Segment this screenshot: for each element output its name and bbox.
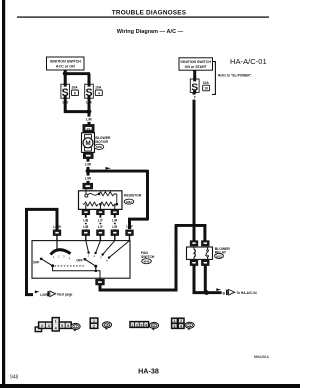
- fan switch right wiper: [85, 259, 96, 266]
- blower relay connector top 1: [190, 241, 197, 246]
- blower relay connector oval M33: [215, 254, 224, 259]
- scan bottom black edge: [0, 384, 300, 388]
- wire fuse 2 down: [88, 99, 91, 113]
- svg-text:Wiring Diagram — A/C —: Wiring Diagram — A/C —: [117, 29, 184, 35]
- svg-text:3: 3: [141, 323, 143, 327]
- fan switch left wiper: [41, 259, 52, 266]
- svg-text:OFF: OFF: [33, 260, 39, 264]
- legend oval M58: [102, 322, 111, 330]
- blower relay box: [187, 247, 213, 259]
- ignition switch box ACC or ON: [47, 57, 85, 70]
- svg-text:MHA281A: MHA281A: [254, 355, 270, 359]
- svg-text:ON or START: ON or START: [185, 65, 208, 69]
- svg-text:L/Y: L/Y: [98, 225, 104, 229]
- fan switch left rotary arc: [51, 250, 71, 255]
- fuse 3 10A: [190, 78, 199, 94]
- svg-text:4: 4: [180, 324, 182, 328]
- legend connector face 3: [130, 322, 149, 328]
- ignition switch box ON or START: [179, 58, 213, 70]
- svg-text:L/R: L/R: [112, 218, 118, 222]
- wire to off-page arrow: [207, 291, 222, 294]
- svg-text:OFF: OFF: [76, 258, 82, 262]
- off-page arrow next page: [47, 291, 55, 297]
- svg-text:L/GR: L/GR: [53, 225, 61, 229]
- svg-text:10A: 10A: [71, 86, 78, 90]
- svg-text:L/Y: L/Y: [98, 218, 104, 222]
- header rule: [17, 16, 269, 17]
- wire from ignition ACC box down: [64, 70, 67, 75]
- legend connector face 4: [172, 318, 184, 328]
- blower relay connector bottom 2: [202, 260, 209, 265]
- wire L/W left to fan switch connector: [130, 219, 149, 229]
- svg-text:M33: M33: [216, 254, 222, 258]
- svg-text:3: 3: [174, 324, 176, 328]
- resistor box: [79, 189, 123, 210]
- svg-text:IGNITION SWITCH: IGNITION SWITCH: [50, 60, 82, 64]
- svg-text:3: 3: [48, 324, 50, 328]
- mechanical link dashed line: [54, 265, 84, 267]
- fan switch right contact 4: [108, 256, 110, 258]
- svg-text:M49: M49: [144, 260, 150, 264]
- fan switch connector 3: [97, 230, 104, 235]
- direction arrow on L/W wire: [106, 167, 112, 170]
- wire down to fuse 1: [64, 74, 67, 85]
- resistor pin connector 1: [82, 210, 89, 215]
- legend oval M15: [71, 323, 80, 331]
- resistor pin connector 3: [111, 210, 118, 215]
- svg-text:948: 948: [10, 375, 19, 381]
- svg-text:10: 10: [204, 87, 208, 91]
- direction arrow on vertical wire: [174, 251, 177, 255]
- fan switch common bus wires: [53, 266, 100, 280]
- wire fuse 1 down and right: [65, 99, 89, 112]
- blower relay connector bottom 1: [190, 260, 197, 265]
- wire resistor pin 3 to fan switch: [114, 215, 116, 230]
- svg-text:2: 2: [93, 324, 95, 328]
- svg-text:6: 6: [67, 324, 69, 328]
- wire fan switch bottom to relay contact column: [100, 225, 176, 290]
- legend oval M33: [185, 322, 194, 330]
- node junction bottom right: [204, 290, 209, 295]
- svg-text:HA-A/C-01: HA-A/C-01: [230, 57, 267, 66]
- node junction below blower motor: [86, 169, 91, 174]
- wire Y down to relay: [193, 100, 196, 241]
- bar over relay: [175, 224, 207, 227]
- direction arrow near L/GR: [35, 290, 40, 293]
- svg-text:M62: M62: [126, 200, 132, 204]
- svg-text:RESISTOR: RESISTOR: [124, 194, 142, 198]
- svg-text:M: M: [85, 140, 90, 147]
- refer bracket: [212, 62, 215, 95]
- fuse 2 10A: [85, 83, 94, 99]
- svg-text:10A: 10A: [203, 81, 210, 85]
- fan switch contact lines from connectors: [86, 241, 89, 253]
- wire resistor pin 1 to fan switch: [85, 215, 87, 230]
- svg-text:L/W: L/W: [85, 177, 92, 181]
- node junction under ACC box: [63, 71, 68, 76]
- wire L/W horizontal to right: [88, 170, 148, 173]
- svg-text:1: 1: [55, 320, 57, 324]
- svg-text:6: 6: [74, 91, 76, 95]
- legend oval M62: [149, 322, 158, 330]
- connector below blower motor: [84, 153, 94, 159]
- wire L/GR loop from fan switch pin 1: [27, 209, 58, 294]
- fan switch connector 2: [82, 230, 89, 235]
- resistor pin connector 2: [97, 210, 104, 215]
- wire relay coil pin down: [194, 265, 207, 292]
- svg-text:M58: M58: [96, 145, 102, 149]
- fan switch right contact 2: [94, 252, 96, 254]
- fan switch left OFF contact: [40, 258, 43, 261]
- svg-text:TROUBLE DIAGNOSES: TROUBLE DIAGNOSES: [112, 10, 187, 17]
- blower motor connector oval M58: [94, 144, 104, 149]
- svg-text:S: S: [62, 87, 69, 99]
- wire blower motor to junction: [87, 158, 90, 170]
- fan switch bottom connector: [96, 279, 104, 284]
- wire down to connector: [88, 112, 91, 125]
- svg-text:Refer to “EL-POWER”.: Refer to “EL-POWER”.: [218, 73, 252, 77]
- fan switch right wiper pivot: [94, 265, 97, 268]
- svg-text:5: 5: [61, 324, 63, 328]
- fan switch connector 5: [126, 230, 133, 235]
- fan switch left rotary feed wire: [56, 241, 58, 252]
- wire branch to right fuse: [64, 72, 90, 75]
- svg-text:2: 2: [41, 324, 43, 328]
- wire junction to resistor: [87, 171, 90, 183]
- fan switch connector 4: [111, 230, 118, 235]
- svg-text:15: 15: [87, 127, 91, 131]
- legend connector face 1: [35, 318, 71, 332]
- fan switch connector oval M49: [142, 259, 152, 264]
- connector above resistor: [83, 183, 93, 188]
- svg-text:1: 1: [174, 319, 176, 323]
- direction arrow on bottom wire: [216, 288, 221, 291]
- svg-text:L/R: L/R: [112, 225, 118, 229]
- fan switch connector 1: [53, 230, 60, 235]
- svg-text:L/W: L/W: [85, 162, 92, 166]
- svg-text:4: 4: [145, 323, 147, 327]
- fuse 1 10A: [61, 83, 70, 99]
- fan switch left wiper pivot: [51, 264, 54, 267]
- node junction of fuse outputs: [87, 109, 92, 114]
- blower relay connector top 2: [202, 241, 209, 246]
- wire ignition ON box to fuse 3: [193, 70, 196, 79]
- fan switch right contact 1: [87, 251, 89, 253]
- svg-text:1: 1: [131, 323, 133, 327]
- fan switch right contact 3: [101, 253, 103, 255]
- svg-text:Next page: Next page: [57, 293, 72, 297]
- fan switch right OFF contact: [84, 258, 87, 261]
- fuse 1 number box: [72, 90, 79, 96]
- drop to relay contact pin: [203, 224, 206, 241]
- svg-text:L/W: L/W: [126, 224, 133, 228]
- stub wires connectors to fan switch box: [57, 235, 130, 240]
- wire down to fuse 2: [88, 74, 91, 85]
- connector M15 above blower motor: [83, 125, 94, 133]
- svg-text:S: S: [191, 83, 198, 94]
- off-page arrow to HA-A/C-04: [226, 289, 235, 295]
- wire relay contact pin down: [204, 265, 207, 292]
- svg-text:ACC or ON: ACC or ON: [56, 65, 75, 69]
- fan switch box: [32, 241, 130, 279]
- svg-text:HA-38: HA-38: [138, 367, 159, 376]
- svg-text:L/GR: L/GR: [40, 293, 48, 297]
- fuse 3 number box: [203, 85, 210, 91]
- wire Y stub below fuse 3: [193, 93, 196, 95]
- wire L/W down right side: [146, 170, 149, 221]
- svg-text:L/R: L/R: [86, 117, 92, 121]
- svg-text:S: S: [85, 87, 92, 99]
- legend connector face 2: [90, 318, 98, 328]
- fuse 2 number box: [95, 90, 102, 96]
- svg-text:2: 2: [136, 323, 138, 327]
- scan left black edge: [2, 0, 5, 388]
- wire resistor pin 2 to fan switch: [100, 215, 102, 230]
- svg-text:L/B: L/B: [83, 225, 89, 229]
- blower motor M: [82, 133, 95, 153]
- node pivot bus junction: [95, 270, 98, 273]
- svg-text:IGNITION SWITCH: IGNITION SWITCH: [181, 60, 212, 64]
- svg-text:MOTOR: MOTOR: [95, 140, 108, 144]
- svg-text:4: 4: [98, 91, 100, 95]
- svg-text:To HA-A/C-04: To HA-A/C-04: [236, 291, 257, 295]
- svg-text:10A: 10A: [95, 86, 102, 90]
- svg-text:4: 4: [55, 327, 57, 331]
- resistor connector oval M62: [124, 199, 134, 204]
- svg-text:L/B: L/B: [83, 218, 89, 222]
- svg-text:2: 2: [180, 319, 182, 323]
